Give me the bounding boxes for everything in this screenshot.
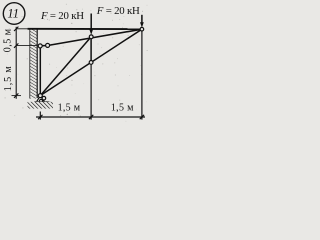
link wall pin to node A (40, 45, 47, 47)
svg-text:F = 20 кН: F = 20 кН (96, 5, 140, 17)
left column member (39, 46, 41, 96)
support legs (37, 96, 45, 102)
hinge circle node B (89, 35, 93, 39)
hinge circle node A (46, 43, 50, 47)
wall hatching (30, 29, 38, 99)
hinge circle node C (140, 27, 144, 31)
extension line below C to base dimension (141, 31, 143, 120)
hinge circle wall pin (top) (38, 44, 42, 48)
force arrow F1 (89, 14, 93, 35)
diagonal member D-B (40, 37, 91, 96)
force arrow F2 (140, 15, 144, 28)
vertical member B-E (90, 37, 92, 63)
svg-text:0,5 м: 0,5 м (2, 28, 13, 52)
top horizontal chord member (28, 28, 142, 30)
svg-text:11: 11 (7, 7, 19, 21)
figure number badge "11" (3, 3, 25, 25)
extension line below E to base dimension (90, 63, 92, 120)
support base line and ground hatching (28, 102, 54, 109)
hinge circle node E (89, 61, 93, 65)
svg-text:1,5 м: 1,5 м (58, 102, 81, 113)
left vertical dimension line with ticks (12, 27, 38, 99)
bottom dimension line with ticks (36, 115, 145, 119)
svg-text:1,5 м: 1,5 м (111, 102, 134, 113)
svg-text:F = 20 кН: F = 20 кН (40, 10, 84, 22)
svg-text:1,5 м: 1,5 м (3, 65, 14, 91)
short extension line below support (39, 112, 41, 120)
inclined chord member A-B-C (48, 29, 142, 45)
support pin D hinge circles (38, 94, 45, 103)
diagonal member D-E-C (40, 29, 141, 95)
